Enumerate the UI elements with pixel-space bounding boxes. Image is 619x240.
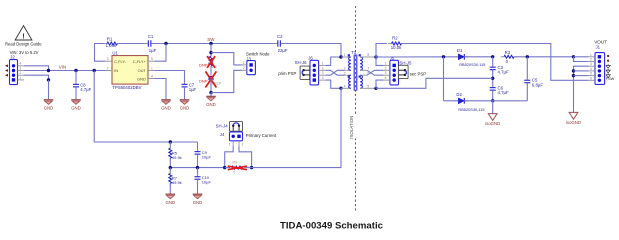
node sense left — [223, 166, 226, 169]
node D1 anode branch — [442, 55, 445, 58]
resistor R2 — [388, 43, 391, 45]
svg-text:3: 3 — [590, 62, 592, 66]
svg-text:7: 7 — [367, 66, 369, 70]
node R5 top — [169, 140, 172, 143]
capacitor C1 — [144, 43, 148, 45]
T1 phase dots — [348, 54, 350, 56]
svg-text:J2: J2 — [10, 55, 15, 60]
wire sec row to D1 — [376, 56, 458, 58]
svg-text:TIDA-00349 Schematic: TIDA-00349 Schematic — [280, 221, 384, 232]
wire C1 to SW rail — [151, 43, 277, 45]
wire crossover sec — [367, 70, 383, 75]
svg-text:2: 2 — [243, 66, 245, 70]
svg-text:R6: R6 — [232, 161, 237, 165]
svg-text:0: 0 — [233, 171, 235, 175]
svg-text:J6: J6 — [308, 55, 313, 60]
svg-text:6: 6 — [590, 76, 592, 80]
svg-text:!: ! — [22, 34, 24, 41]
wire C5 bottom — [526, 83, 528, 101]
J2 pin stubs — [18, 65, 25, 67]
svg-text:1: 1 — [243, 61, 245, 65]
svg-text:1µF: 1µF — [149, 48, 157, 53]
svg-text:R1: R1 — [107, 37, 113, 42]
wire C3 top — [492, 57, 494, 66]
svg-text:TPS60402DBV: TPS60402DBV — [112, 85, 141, 90]
svg-text:6.8µF: 6.8µF — [532, 83, 543, 88]
wire to GND — [48, 80, 50, 100]
wire R5 bottom — [169, 158, 171, 167]
svg-text:1: 1 — [385, 61, 387, 65]
svg-text:Primary Current: Primary Current — [246, 133, 277, 138]
wire sense to T1 pin4 — [252, 88, 341, 167]
svg-text:2: 2 — [107, 66, 109, 70]
svg-text:prim PSP: prim PSP — [278, 71, 296, 76]
node sense right — [250, 166, 253, 169]
wire sec bottom to mid node — [376, 78, 493, 88]
svg-text:10µF: 10µF — [202, 180, 212, 185]
svg-text:FSW: FSW — [606, 77, 615, 81]
ground G6 — [166, 193, 176, 195]
ground isoGND1 — [488, 114, 497, 121]
ground G5 — [206, 95, 216, 97]
svg-text:5: 5 — [151, 57, 153, 61]
svg-text:J5: J5 — [390, 55, 395, 60]
node C5 top — [526, 55, 529, 58]
svg-text:1: 1 — [229, 142, 231, 146]
node VIN branch — [93, 69, 96, 72]
node VIN/C8 — [74, 69, 77, 72]
capacitor C6 — [492, 85, 494, 87]
svg-text:GND: GND — [206, 102, 216, 107]
wire J4 pin1 — [225, 146, 234, 167]
wire C2 to T1 — [281, 44, 341, 58]
wire C10 bottom — [197, 179, 199, 194]
node VOUT pin1 — [572, 55, 575, 58]
svg-text:isoGND: isoGND — [485, 121, 500, 126]
svg-text:3: 3 — [322, 71, 324, 75]
svg-text:OUT: OUT — [138, 68, 147, 73]
svg-text:4: 4 — [385, 76, 387, 80]
wire C4 bottom — [210, 79, 212, 93]
svg-text:4: 4 — [344, 84, 346, 88]
svg-text:8: 8 — [367, 53, 369, 57]
J5 pin stubs — [383, 64, 390, 66]
wire OUT to C7 — [154, 71, 184, 84]
ground G7 — [193, 193, 203, 195]
svg-text:GND: GND — [137, 76, 146, 81]
resistor R1 — [104, 43, 107, 45]
svg-text:1: 1 — [151, 66, 153, 70]
capacitor C4 (DNP) — [208, 76, 214, 78]
svg-text:4: 4 — [151, 74, 153, 78]
diode D1 — [454, 56, 458, 58]
svg-text:GND: GND — [193, 200, 203, 205]
svg-text:GND: GND — [180, 105, 190, 110]
wire crossover prim — [326, 70, 344, 75]
node pin5 — [572, 74, 575, 77]
capacitor C7 — [184, 82, 186, 84]
svg-text:SH-J5: SH-J5 — [400, 60, 413, 65]
resistor R6 (DNP) — [225, 167, 230, 169]
svg-text:isoGND: isoGND — [566, 120, 581, 125]
wire R7 bottom — [169, 183, 171, 194]
node snubber bottom — [209, 91, 212, 94]
wire to J3 pin1 — [211, 53, 242, 65]
T1 primary winding bottom — [349, 75, 351, 88]
svg-text:3: 3 — [385, 71, 387, 75]
wire J6 pin1 up — [326, 57, 340, 65]
diode D2 — [454, 100, 458, 102]
node T1 pin4 — [339, 87, 342, 90]
node D1 cathode — [491, 55, 494, 58]
wire R1 to C1 — [118, 43, 148, 45]
resistor R5 — [169, 142, 171, 148]
wire rail to FSW — [402, 44, 589, 81]
wire C7 to GND — [184, 87, 186, 100]
svg-text:D1: D1 — [457, 48, 463, 53]
svg-text:RB520S30,115: RB520S30,115 — [458, 107, 484, 112]
wire J6 pin4 down — [326, 80, 340, 88]
svg-text:4.7µF: 4.7µF — [80, 87, 91, 92]
svg-text:49.9k: 49.9k — [172, 180, 182, 185]
wire C8 top — [75, 71, 77, 84]
svg-text:ISOLATION: ISOLATION — [349, 116, 354, 139]
wire D1 to node — [464, 56, 492, 58]
T1 core — [353, 55, 355, 91]
svg-text:GND: GND — [161, 105, 171, 110]
wire VIN run — [24, 70, 106, 72]
wire C6 bottom — [492, 90, 494, 101]
svg-text:C1: C1 — [148, 34, 154, 39]
wire isoGND 1 — [492, 101, 494, 114]
mid rail — [170, 167, 224, 169]
svg-text:DNP: DNP — [199, 63, 208, 68]
capacitor C3 — [492, 65, 494, 67]
ground G2 — [71, 99, 81, 101]
wire J4 pin2 — [239, 146, 252, 167]
resistor R3 — [501, 56, 504, 58]
node pin4 — [572, 69, 575, 72]
J1 pin stubs — [589, 56, 595, 58]
svg-text:2: 2 — [385, 66, 387, 70]
J4 pin stubs — [232, 141, 234, 146]
svg-text:4: 4 — [322, 76, 324, 80]
svg-text:10µF: 10µF — [202, 155, 212, 160]
capacitor C9 — [197, 149, 199, 151]
J6 pin stubs — [319, 64, 326, 66]
wire J2 pin4 to VIN — [24, 66, 49, 71]
svg-text:4: 4 — [19, 62, 21, 66]
svg-text:1: 1 — [19, 76, 21, 80]
U1 pin stubs — [106, 60, 112, 62]
capacitor C8 — [75, 82, 77, 84]
node J3 pin1 tap — [209, 51, 212, 54]
svg-text:3: 3 — [19, 66, 21, 70]
wire J2 pin1 — [47, 78, 50, 81]
svg-text:2: 2 — [344, 66, 346, 70]
svg-text:J4: J4 — [220, 132, 225, 137]
svg-text:RB520S30,115: RB520S30,115 — [459, 62, 485, 67]
svg-text:IN: IN — [114, 68, 118, 73]
wire snubber top — [210, 44, 212, 57]
wire T1 pin8 up to rail — [376, 44, 387, 58]
T1 secondary winding bottom — [360, 75, 362, 88]
wire C3 bottom — [492, 70, 494, 88]
T1 primary winding top — [349, 57, 351, 70]
node D2 cathode — [491, 99, 494, 102]
svg-text:SH-J6: SH-J6 — [295, 60, 308, 65]
wire D2 branch down — [443, 57, 445, 101]
svg-text:GND: GND — [44, 105, 54, 110]
wire R4 to C4 — [210, 66, 212, 75]
svg-text:R2: R2 — [392, 36, 398, 41]
wire J2 pin2 to GND — [24, 75, 49, 80]
svg-text:U1: U1 — [112, 50, 118, 55]
node T1 pin8 — [374, 55, 377, 58]
svg-text:R3: R3 — [505, 50, 511, 55]
resistor R7 — [169, 168, 171, 174]
J1 right flags — [607, 55, 609, 57]
node VIN merge — [47, 69, 50, 72]
wire U1 GND pin — [154, 79, 166, 100]
wire VIN down to divider — [94, 71, 197, 143]
warning triangle Read Design Guide — [15, 26, 32, 40]
svg-text:C,FLY-: C,FLY- — [114, 59, 126, 64]
svg-text:1: 1 — [590, 53, 592, 57]
svg-text:4.7µF: 4.7µF — [498, 90, 509, 95]
isolation barrier dashed line — [355, 6, 357, 211]
wire R3 out — [515, 56, 574, 58]
ground isoGND2 — [569, 112, 578, 119]
svg-text:1.00k: 1.00k — [106, 43, 117, 48]
svg-text:1: 1 — [322, 61, 324, 65]
wire to J3 pin2 — [211, 70, 242, 92]
svg-text:2: 2 — [590, 58, 592, 62]
T1 secondary winding top — [360, 57, 362, 70]
svg-text:C,FLY+: C,FLY+ — [133, 59, 147, 64]
svg-text:Read Design Guide: Read Design Guide — [5, 41, 42, 46]
svg-text:4.7µF: 4.7µF — [498, 69, 509, 74]
capacitor C5 — [526, 57, 528, 79]
svg-text:D2: D2 — [456, 92, 462, 97]
capacitor C2 — [274, 43, 278, 45]
wire J5 pin1 — [376, 57, 383, 65]
wire to GND — [210, 93, 212, 97]
T1 pin stubs right — [360, 56, 376, 58]
svg-text:J1: J1 — [596, 44, 601, 49]
svg-text:5: 5 — [590, 72, 592, 76]
node SW — [209, 42, 212, 45]
svg-text:10.0k: 10.0k — [391, 45, 402, 50]
wire CFLY- to R1 — [95, 44, 108, 62]
svg-text:3: 3 — [344, 71, 346, 75]
svg-text:1: 1 — [344, 53, 346, 57]
node sec mid — [491, 77, 494, 80]
svg-text:SH-J4: SH-J4 — [216, 123, 229, 128]
resistor R4 (DNP) — [209, 56, 212, 66]
svg-text:2: 2 — [322, 66, 324, 70]
T1 pin stubs left — [341, 56, 351, 58]
svg-text:2: 2 — [19, 71, 21, 75]
svg-text:sec PSP: sec PSP — [410, 72, 427, 77]
svg-text:22µF: 22µF — [278, 48, 288, 53]
svg-text:4: 4 — [590, 67, 592, 71]
wire CFLY+ — [154, 44, 166, 62]
svg-text:SW: SW — [207, 37, 215, 42]
ground G4 — [161, 99, 171, 101]
ground G1 — [44, 99, 54, 101]
ground G3 — [180, 99, 190, 101]
wire J5 pin4 — [376, 80, 383, 88]
svg-text:C2: C2 — [277, 34, 283, 39]
wire C9 top — [197, 142, 199, 151]
svg-text:1µF: 1µF — [189, 87, 197, 92]
node T1 pin1 — [339, 55, 342, 58]
capacitor C10 — [197, 168, 199, 176]
wire C8 bottom — [75, 87, 77, 100]
wire C9 bottom — [197, 154, 199, 167]
wire pin1/pin2 — [574, 56, 589, 58]
svg-text:3: 3 — [107, 57, 109, 61]
svg-text:5: 5 — [367, 84, 369, 88]
J2 left arrows — [5, 64, 8, 67]
svg-text:T1: T1 — [351, 50, 357, 55]
svg-text:DNP: DNP — [199, 78, 208, 83]
svg-text:GND: GND — [166, 200, 176, 205]
svg-text:49.9k: 49.9k — [172, 155, 182, 160]
wire isoGND chain — [574, 66, 589, 112]
wire D2 row — [444, 100, 459, 102]
svg-text:VIN: VIN — [59, 65, 66, 70]
node T1 pin5 — [374, 87, 377, 90]
svg-text:GND: GND — [71, 105, 81, 110]
node CFLY+/C1 — [164, 42, 167, 45]
svg-text:2: 2 — [242, 142, 244, 146]
